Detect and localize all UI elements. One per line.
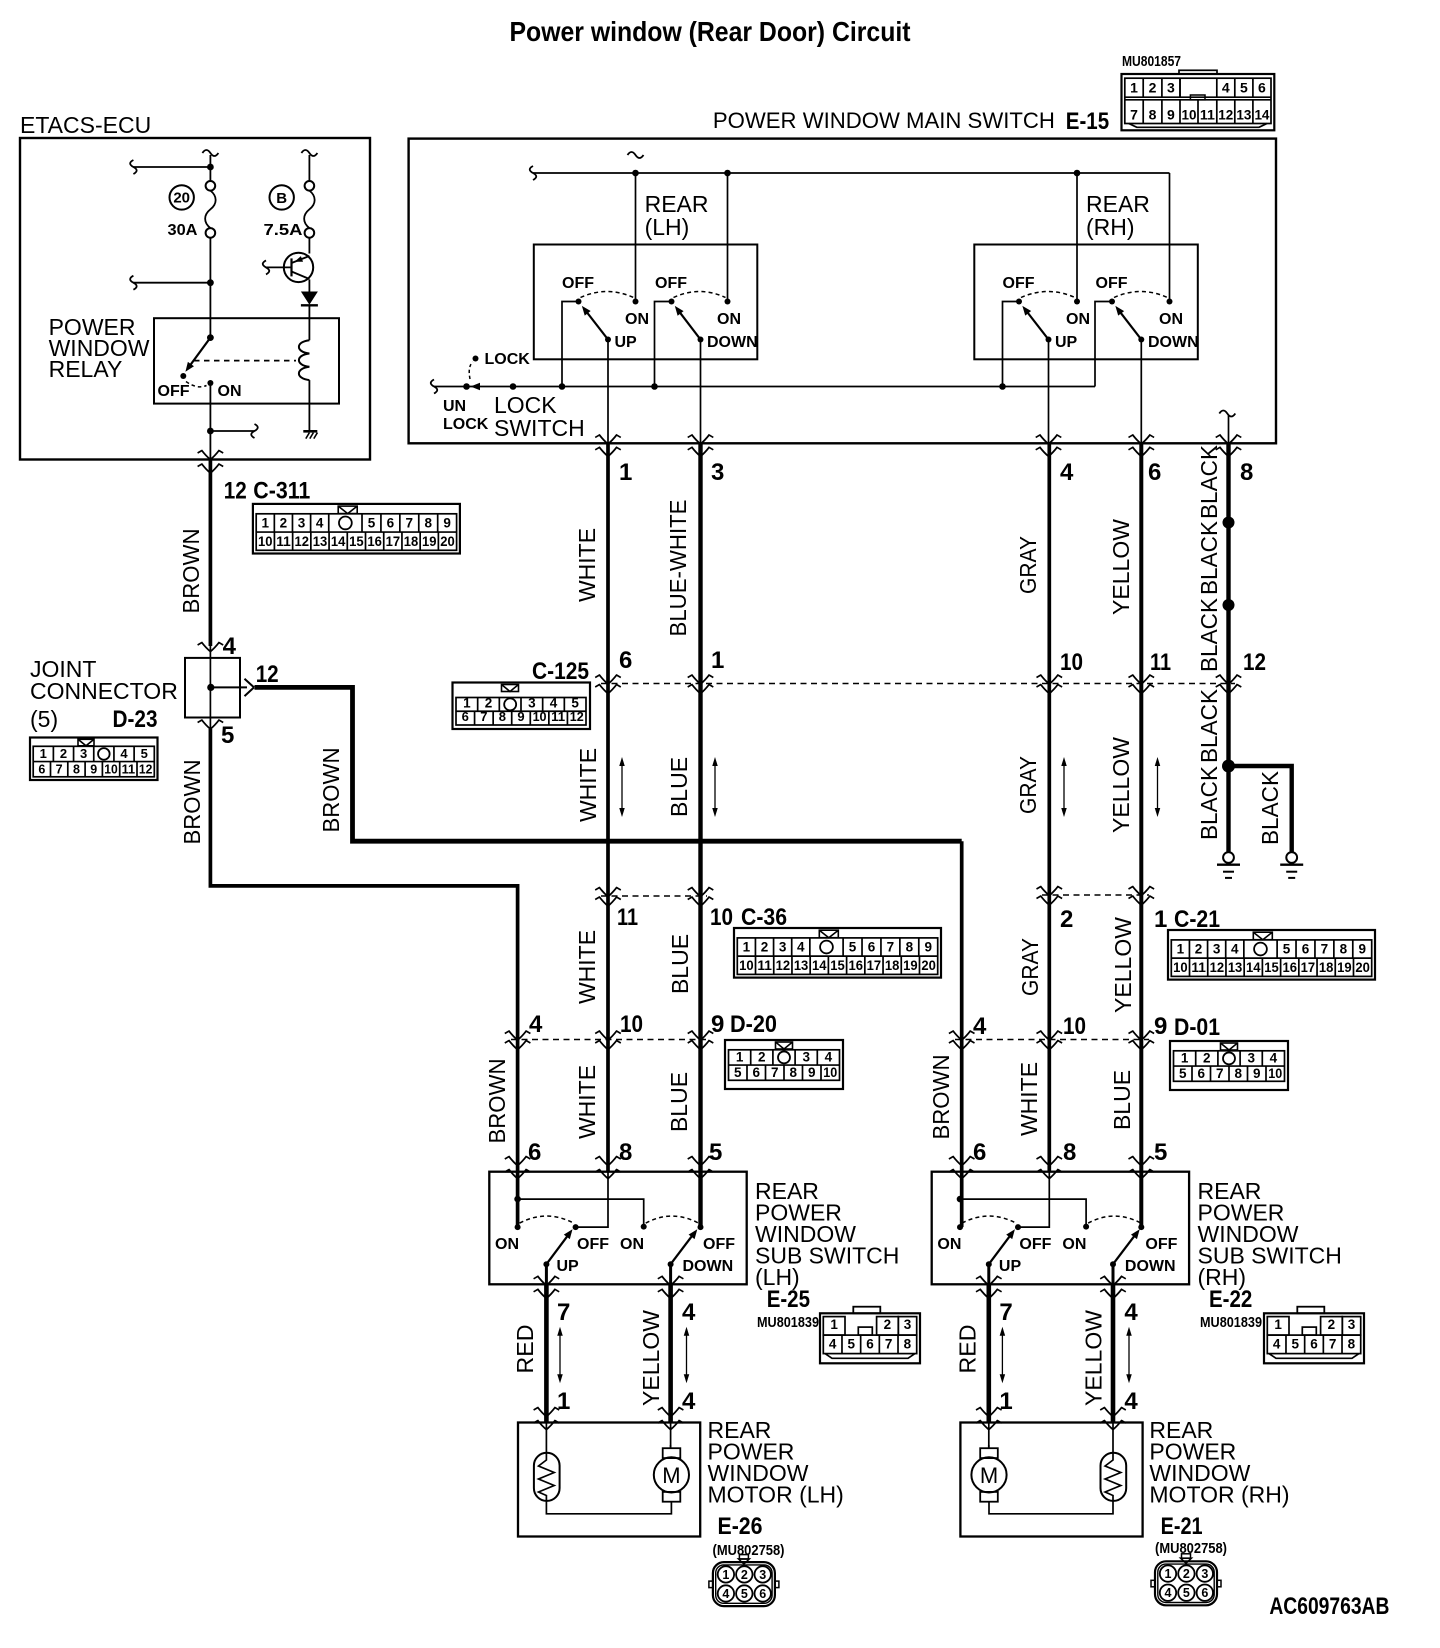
- svg-text:C-125: C-125: [532, 658, 589, 685]
- node: feed junction on BROWN inside sub switch: [957, 1196, 964, 1203]
- svg-text:E-26: E-26: [718, 1513, 763, 1540]
- relay dashed arc OFF-ON: [186, 382, 207, 387]
- svg-text:10: 10: [1268, 1066, 1282, 1081]
- svg-text:9: 9: [808, 1065, 816, 1080]
- svg-text:LOCK: LOCK: [443, 416, 489, 433]
- junction chevrons: pin 4 leaving E-15: [1040, 434, 1058, 444]
- junction chevrons C-36 pin 11 (WHITE): [599, 887, 617, 897]
- wire RED: sub switch RH UP to motor RH: [987, 1264, 990, 1284]
- lock switch common node: [510, 383, 517, 390]
- svg-text:1: 1: [1165, 1567, 1172, 1581]
- svg-text:9: 9: [443, 516, 451, 531]
- wire: RH UP contact down to pin 4: [1048, 340, 1050, 444]
- junction chevrons C-36 pin 10 (BLUE): [692, 887, 710, 897]
- wire: fuse 20 to relay common: [209, 238, 211, 338]
- wire: internal link BROWN junction to DOWN-ON contact: [518, 1199, 644, 1227]
- svg-text:5: 5: [571, 695, 579, 710]
- wire BROWN: joint connector pin 5 to sub switch LH: [210, 729, 517, 1227]
- svg-text:17: 17: [867, 958, 882, 973]
- wire: relay coil to ECU internal ground: [308, 380, 310, 431]
- svg-text:6: 6: [973, 1139, 986, 1166]
- svg-text:GRAY: GRAY: [1017, 938, 1043, 996]
- connector D-01 pin diagram: [1170, 1041, 1288, 1090]
- svg-text:3: 3: [1167, 80, 1175, 96]
- junction chevrons: pin 5 entering sub switch LH: [692, 1156, 710, 1166]
- junction chevrons C-21 pin 2 (GRAY): [1040, 886, 1058, 896]
- svg-text:20: 20: [1355, 960, 1370, 975]
- relay coil: [299, 340, 310, 380]
- svg-text:12: 12: [256, 661, 279, 688]
- svg-text:ON: ON: [937, 1236, 961, 1253]
- svg-text:4: 4: [120, 746, 128, 761]
- connector C-311 pin diagram: [253, 504, 460, 554]
- svg-text:4: 4: [829, 1337, 837, 1352]
- relay switch blade with arrow to OFF: [189, 338, 211, 368]
- junction chevrons: pin 8 leaving E-15: [1220, 434, 1238, 444]
- wire GRAY: E-15 pin 4 down to sub switch RH: [1047, 443, 1051, 1171]
- svg-text:6: 6: [38, 762, 45, 776]
- svg-text:1: 1: [1181, 1051, 1189, 1066]
- svg-text:13: 13: [1236, 106, 1251, 122]
- svg-text:2: 2: [280, 516, 288, 531]
- REAR LH UP switch contacts and blade: [576, 299, 582, 305]
- node: BLACK wire joint dot 2: [1223, 599, 1235, 611]
- sub switch UP unit contacts and blade: [515, 1224, 521, 1230]
- svg-text:BROWN: BROWN: [928, 1055, 954, 1140]
- wire: RH UP OFF contact to lock rail: [1003, 302, 1020, 387]
- ETACS-ECU box: [20, 138, 370, 460]
- connector D-20 pin diagram: [725, 1040, 843, 1089]
- junction chevrons: wire leaving sub switch: [537, 1276, 555, 1286]
- svg-text:1: 1: [262, 516, 270, 531]
- sub switch UP unit contacts and blade: [957, 1224, 963, 1230]
- relay OFF contact: [180, 373, 186, 379]
- node: junction with stub to right (y=431): [207, 428, 214, 435]
- svg-text:WHITE: WHITE: [574, 1065, 600, 1139]
- wire: RH DOWN contact down to pin 6: [1140, 340, 1142, 444]
- svg-text:UP: UP: [1055, 334, 1078, 351]
- svg-text:11: 11: [1191, 960, 1206, 975]
- svg-text:7: 7: [999, 1299, 1012, 1326]
- svg-text:3: 3: [711, 459, 724, 486]
- wire BLACK: tee to right ground: [1229, 766, 1292, 852]
- sub switch DOWN unit contacts and blade: [641, 1224, 647, 1230]
- wire BROWN (thick): joint connector pin 12 to sub switch RH: [255, 687, 962, 841]
- joint connector arrow to pin 12: [211, 686, 247, 688]
- svg-text:19: 19: [903, 958, 918, 973]
- motor M symbol (RH): [980, 1448, 998, 1458]
- svg-text:BLUE: BLUE: [667, 934, 693, 994]
- wire YELLOW: E-15 pin 6 down to sub switch RH OFF: [1139, 443, 1143, 1227]
- svg-text:7: 7: [771, 1065, 779, 1080]
- svg-text:19: 19: [422, 534, 437, 549]
- fuse circled B label: [270, 185, 294, 209]
- svg-text:6: 6: [868, 940, 876, 955]
- svg-text:7: 7: [887, 940, 895, 955]
- node: LH UP OFF junction on lock rail: [559, 383, 566, 390]
- junction chevrons D-20 pin 10 (WHITE): [599, 1031, 617, 1041]
- svg-text:4: 4: [1060, 459, 1074, 486]
- svg-text:6: 6: [752, 1065, 760, 1080]
- svg-text:1: 1: [619, 459, 632, 486]
- svg-text:BLUE: BLUE: [1109, 1070, 1135, 1130]
- wire: rail to LH switch ON contacts: [635, 173, 637, 302]
- svg-text:B: B: [276, 190, 287, 207]
- svg-text:16: 16: [848, 958, 863, 973]
- svg-text:13: 13: [794, 958, 809, 973]
- svg-text:13: 13: [1228, 960, 1243, 975]
- svg-text:5: 5: [368, 516, 376, 531]
- svg-text:ON: ON: [1066, 311, 1090, 328]
- svg-text:8: 8: [1149, 106, 1157, 122]
- svg-text:1: 1: [557, 1388, 570, 1415]
- svg-text:ON: ON: [218, 383, 242, 400]
- svg-text:UN: UN: [443, 398, 466, 415]
- svg-text:10: 10: [1182, 106, 1197, 122]
- svg-text:1: 1: [1274, 1317, 1282, 1332]
- svg-text:11: 11: [617, 904, 638, 931]
- svg-text:4: 4: [1231, 942, 1239, 957]
- REAR RH UP switch contacts and blade: [1016, 299, 1022, 305]
- svg-text:OFF: OFF: [158, 383, 190, 400]
- svg-text:5: 5: [1292, 1337, 1300, 1352]
- svg-text:9: 9: [1167, 106, 1175, 122]
- wire: internal bottom link (LH motor): [546, 1501, 671, 1514]
- svg-text:5: 5: [709, 1139, 722, 1166]
- wire: WHITE into UP OFF contact: [1018, 1172, 1049, 1227]
- svg-text:5: 5: [221, 722, 234, 749]
- svg-text:10: 10: [739, 958, 754, 973]
- connector C-36 pin diagram: [734, 928, 941, 978]
- junction chevrons: wire entering motor box: [662, 1407, 680, 1417]
- node: BLACK wire joint dot 1: [1223, 517, 1235, 529]
- svg-text:9: 9: [1358, 942, 1366, 957]
- lock switch rail: [431, 380, 438, 394]
- junction chevrons C-125 pin 11 (YELLOW): [1132, 675, 1150, 685]
- svg-text:E-25: E-25: [767, 1286, 810, 1313]
- svg-text:14: 14: [1246, 960, 1261, 975]
- svg-text:YELLOW: YELLOW: [638, 1310, 664, 1406]
- svg-text:E-21: E-21: [1161, 1513, 1203, 1540]
- junction chevrons: wire leaving sub switch: [980, 1276, 998, 1286]
- svg-text:10: 10: [104, 762, 118, 776]
- svg-text:3: 3: [1201, 1567, 1208, 1581]
- connector line C-125 (dashed): [601, 683, 1235, 685]
- wire: ignition feed into fuse B (x=309): [301, 150, 317, 156]
- svg-text:E-22: E-22: [1209, 1286, 1252, 1313]
- svg-text:LOCK: LOCK: [485, 351, 531, 368]
- junction chevrons D-01 pin 4 (BROWN): [953, 1031, 971, 1041]
- svg-text:2: 2: [884, 1317, 892, 1332]
- svg-text:MU801839: MU801839: [1200, 1314, 1262, 1331]
- svg-text:6: 6: [759, 1587, 766, 1601]
- connector line D-20 (dashed): [511, 1039, 707, 1041]
- wire RED: sub switch LH UP to motor LH: [545, 1264, 548, 1284]
- connector MU802758 pin diagram (LH): [713, 1562, 775, 1606]
- fuse 20 30A symbol: [206, 181, 216, 191]
- lock switch LOCK contact: [473, 356, 479, 362]
- svg-text:7: 7: [557, 1299, 570, 1326]
- svg-text:8: 8: [1348, 1337, 1356, 1352]
- wire BROWN: ETACS pin 12 down to joint connector: [209, 460, 213, 647]
- svg-text:6: 6: [1310, 1337, 1318, 1352]
- svg-text:OFF: OFF: [655, 275, 687, 292]
- wire: rail to RH switch ON contact: [1076, 173, 1078, 302]
- svg-text:DOWN: DOWN: [1125, 1258, 1176, 1275]
- svg-text:3: 3: [779, 940, 787, 955]
- svg-text:9: 9: [1253, 1066, 1261, 1081]
- svg-text:14: 14: [1254, 106, 1269, 122]
- svg-text:D-20: D-20: [730, 1011, 777, 1038]
- svg-text:15: 15: [830, 958, 845, 973]
- svg-text:M: M: [980, 1463, 998, 1488]
- connector C-21 pin diagram: [1168, 930, 1375, 980]
- svg-text:14: 14: [331, 534, 346, 549]
- wire: transistor to diode: [308, 280, 310, 293]
- svg-text:3: 3: [1213, 942, 1221, 957]
- svg-text:17: 17: [1301, 960, 1316, 975]
- svg-text:(RH): (RH): [1086, 214, 1135, 240]
- node: BLACK wire tee junction to second ground: [1222, 760, 1235, 773]
- svg-text:BLACK: BLACK: [1257, 770, 1283, 845]
- svg-text:1: 1: [1130, 80, 1138, 96]
- wire continuation arrow (GRAY segment 2): [1063, 764, 1065, 810]
- svg-text:10: 10: [823, 1065, 837, 1080]
- svg-text:6: 6: [387, 516, 395, 531]
- supply rail break symbol: [628, 152, 644, 158]
- lock switch UNLOCK contact: [463, 383, 470, 390]
- svg-text:BLACK: BLACK: [1196, 765, 1222, 840]
- svg-text:GRAY: GRAY: [1015, 756, 1041, 814]
- svg-text:4: 4: [316, 516, 324, 531]
- wire continuation arrow (WHITE segment 2): [621, 764, 623, 810]
- svg-text:20: 20: [921, 958, 936, 973]
- wire continuation arrow (YELLOW LH): [686, 1334, 688, 1377]
- svg-text:10: 10: [258, 534, 273, 549]
- REAR LH DOWN switch contacts and blade: [669, 299, 675, 305]
- svg-text:6: 6: [1302, 942, 1310, 957]
- svg-text:5: 5: [1240, 80, 1248, 96]
- svg-text:5: 5: [1283, 942, 1291, 957]
- svg-text:ON: ON: [620, 1236, 644, 1253]
- sub switch DOWN unit contacts and blade: [1083, 1224, 1089, 1230]
- svg-text:2: 2: [1195, 942, 1203, 957]
- svg-text:18: 18: [404, 534, 419, 549]
- svg-text:12: 12: [1243, 649, 1266, 676]
- svg-text:8: 8: [1240, 459, 1253, 486]
- svg-text:2: 2: [758, 1050, 766, 1065]
- junction chevrons: pin 1 leaving E-15: [599, 434, 617, 444]
- svg-text:ON: ON: [1062, 1236, 1086, 1253]
- ground symbol (right): [1286, 852, 1297, 863]
- svg-text:RED: RED: [954, 1325, 980, 1374]
- junction chevrons: pin 6 entering sub switch RH: [953, 1156, 971, 1166]
- junction chevrons: wire entering motor box: [980, 1407, 998, 1417]
- rear power window motor box (RH): [960, 1423, 1142, 1537]
- junction chevrons: pin 6 entering sub switch LH: [509, 1156, 527, 1166]
- svg-text:8: 8: [73, 762, 80, 776]
- svg-text:OFF: OFF: [1019, 1236, 1051, 1253]
- svg-text:ON: ON: [1159, 311, 1183, 328]
- svg-text:1: 1: [1177, 942, 1185, 957]
- svg-text:6: 6: [1201, 1586, 1208, 1600]
- connector MU802758 pin diagram (RH): [1155, 1561, 1217, 1605]
- svg-text:9: 9: [924, 940, 932, 955]
- svg-text:1: 1: [830, 1317, 838, 1332]
- connector MU801839 pin diagram (RH): [1297, 1307, 1324, 1314]
- svg-text:4: 4: [973, 1013, 987, 1040]
- svg-text:YELLOW: YELLOW: [1110, 917, 1136, 1013]
- svg-text:7: 7: [1321, 942, 1329, 957]
- svg-text:6: 6: [1258, 80, 1266, 96]
- svg-text:YELLOW: YELLOW: [1108, 519, 1134, 615]
- connector line C-36 (dashed): [601, 895, 707, 897]
- connector D-23 pin diagram: [30, 738, 158, 781]
- svg-text:5: 5: [849, 940, 857, 955]
- main switch supply rail: [530, 166, 537, 180]
- wire continuation arrow (BLUE segment 2): [714, 764, 716, 810]
- svg-text:4: 4: [550, 695, 558, 710]
- svg-text:3: 3: [1348, 1317, 1356, 1332]
- wire YELLOW: sub switch LH DOWN to motor LH: [669, 1264, 672, 1284]
- svg-text:10: 10: [710, 904, 733, 931]
- svg-text:4: 4: [223, 633, 237, 660]
- node: junction dot with stub to left (y=167): [207, 164, 214, 171]
- connector MU801857 housing: [1122, 74, 1275, 130]
- svg-text:4: 4: [529, 1011, 543, 1038]
- svg-text:OFF: OFF: [1003, 275, 1035, 292]
- svg-text:SWITCH: SWITCH: [494, 415, 585, 441]
- wire continuation arrow (YELLOW RH): [1128, 1334, 1130, 1377]
- relay ON contact: [207, 380, 213, 386]
- svg-text:RED: RED: [512, 1325, 538, 1374]
- wire WHITE: E-15 pin 1 down to sub switch LH: [606, 443, 610, 1171]
- svg-text:7.5A: 7.5A: [264, 222, 304, 239]
- junction chevron: BROWN entering joint connector: [201, 642, 219, 652]
- svg-text:4: 4: [1222, 80, 1230, 96]
- svg-text:18: 18: [885, 958, 900, 973]
- wire: relay ON contact down to ECU pin 12: [209, 383, 211, 460]
- svg-text:4: 4: [682, 1299, 696, 1326]
- svg-text:OFF: OFF: [703, 1236, 735, 1253]
- svg-text:BLACK: BLACK: [1196, 520, 1222, 595]
- junction chevrons: wire leaving sub switch: [662, 1276, 680, 1286]
- power window main switch box E-15: [409, 139, 1276, 444]
- svg-text:C-311: C-311: [253, 478, 310, 505]
- svg-text:5: 5: [1183, 1586, 1190, 1600]
- svg-text:12: 12: [776, 958, 791, 973]
- relay switch common node: [207, 334, 214, 341]
- junction chevrons C-125 pin 12 (BLACK): [1220, 675, 1238, 685]
- transistor driver symbol: [284, 253, 313, 282]
- wire continuation arrow (RED LH): [559, 1334, 561, 1377]
- junction chevrons: pin 8 entering sub switch LH: [599, 1156, 617, 1166]
- svg-text:RELAY: RELAY: [49, 356, 123, 382]
- svg-text:8: 8: [904, 1337, 912, 1352]
- svg-text:12: 12: [1218, 106, 1233, 122]
- svg-text:BROWN: BROWN: [484, 1059, 510, 1144]
- svg-text:BLUE: BLUE: [666, 757, 692, 817]
- svg-text:9: 9: [1154, 1013, 1167, 1040]
- svg-text:MU801857: MU801857: [1122, 54, 1181, 70]
- connector line C-21 (dashed): [1042, 894, 1149, 896]
- svg-text:10: 10: [620, 1011, 643, 1038]
- thermal protector (LH motor): [534, 1453, 560, 1501]
- joint connector box: [185, 658, 240, 718]
- svg-text:WHITE: WHITE: [1016, 1062, 1042, 1136]
- svg-text:4: 4: [1124, 1299, 1138, 1326]
- svg-text:1: 1: [736, 1050, 744, 1065]
- svg-text:16: 16: [367, 534, 382, 549]
- svg-text:3: 3: [759, 1568, 766, 1582]
- wire: LH UP OFF contact to lock rail: [562, 302, 579, 387]
- wire continuation arrow (YELLOW segment 2): [1157, 764, 1159, 810]
- svg-text:1: 1: [711, 647, 724, 674]
- svg-text:8: 8: [906, 940, 914, 955]
- svg-text:5: 5: [141, 746, 148, 761]
- svg-text:3: 3: [904, 1317, 912, 1332]
- wire: internal bottom link (RH motor): [989, 1501, 1113, 1514]
- svg-text:1: 1: [722, 1568, 729, 1582]
- junction chevrons D-20 pin 9 (BLUE): [692, 1031, 710, 1041]
- junction chevrons: wire leaving ETACS-ECU box: [201, 450, 219, 460]
- svg-text:4: 4: [1270, 1051, 1278, 1066]
- svg-text:9: 9: [711, 1011, 724, 1038]
- svg-text:OFF: OFF: [1096, 275, 1128, 292]
- svg-text:9: 9: [517, 709, 524, 724]
- svg-text:12: 12: [224, 478, 247, 505]
- svg-text:7: 7: [885, 1337, 893, 1352]
- svg-text:7: 7: [1329, 1337, 1337, 1352]
- svg-text:11: 11: [1150, 649, 1171, 676]
- svg-text:10: 10: [533, 709, 547, 724]
- node: feed junction on BROWN inside sub switch: [514, 1196, 521, 1203]
- svg-text:6: 6: [462, 709, 469, 724]
- svg-text:1: 1: [463, 695, 471, 710]
- node: rail junction above REAR LH ON: [632, 170, 639, 177]
- svg-text:ON: ON: [717, 311, 741, 328]
- wire BLUE-WHITE / BLUE: E-15 pin 3 down to sub switch LH OFF: [698, 443, 702, 1227]
- svg-text:BROWN: BROWN: [318, 748, 344, 833]
- wire: RED into motor tab (RH): [988, 1445, 990, 1448]
- svg-text:30A: 30A: [168, 222, 198, 239]
- junction chevrons: wire entering motor box: [1104, 1407, 1122, 1417]
- svg-text:4: 4: [722, 1587, 729, 1601]
- svg-text:BLUE: BLUE: [666, 1072, 692, 1132]
- node: junction dot with stub to left (y=282.7): [207, 279, 214, 286]
- svg-text:4: 4: [682, 1388, 696, 1415]
- svg-text:3: 3: [298, 516, 306, 531]
- svg-text:D-01: D-01: [1174, 1014, 1220, 1041]
- svg-text:16: 16: [1282, 960, 1297, 975]
- ECU internal ground symbol: [303, 430, 317, 433]
- svg-text:6: 6: [528, 1139, 541, 1166]
- svg-text:15: 15: [1264, 960, 1279, 975]
- svg-text:11: 11: [1200, 106, 1215, 122]
- svg-text:3: 3: [1247, 1051, 1255, 1066]
- thermal protector (RH motor): [1101, 1453, 1127, 1501]
- svg-text:AC609763AB: AC609763AB: [1269, 1593, 1389, 1620]
- svg-text:17: 17: [386, 534, 401, 549]
- svg-text:8: 8: [619, 1139, 632, 1166]
- svg-text:2: 2: [1203, 1051, 1211, 1066]
- wire: fuse B to transistor: [308, 238, 310, 254]
- svg-text:BROWN: BROWN: [178, 529, 204, 614]
- wire continuation arrow (RED RH): [1001, 1334, 1003, 1377]
- REAR RH DOWN switch contacts and blade: [1109, 299, 1115, 305]
- svg-text:5: 5: [1154, 1139, 1167, 1166]
- svg-text:2: 2: [1060, 906, 1073, 933]
